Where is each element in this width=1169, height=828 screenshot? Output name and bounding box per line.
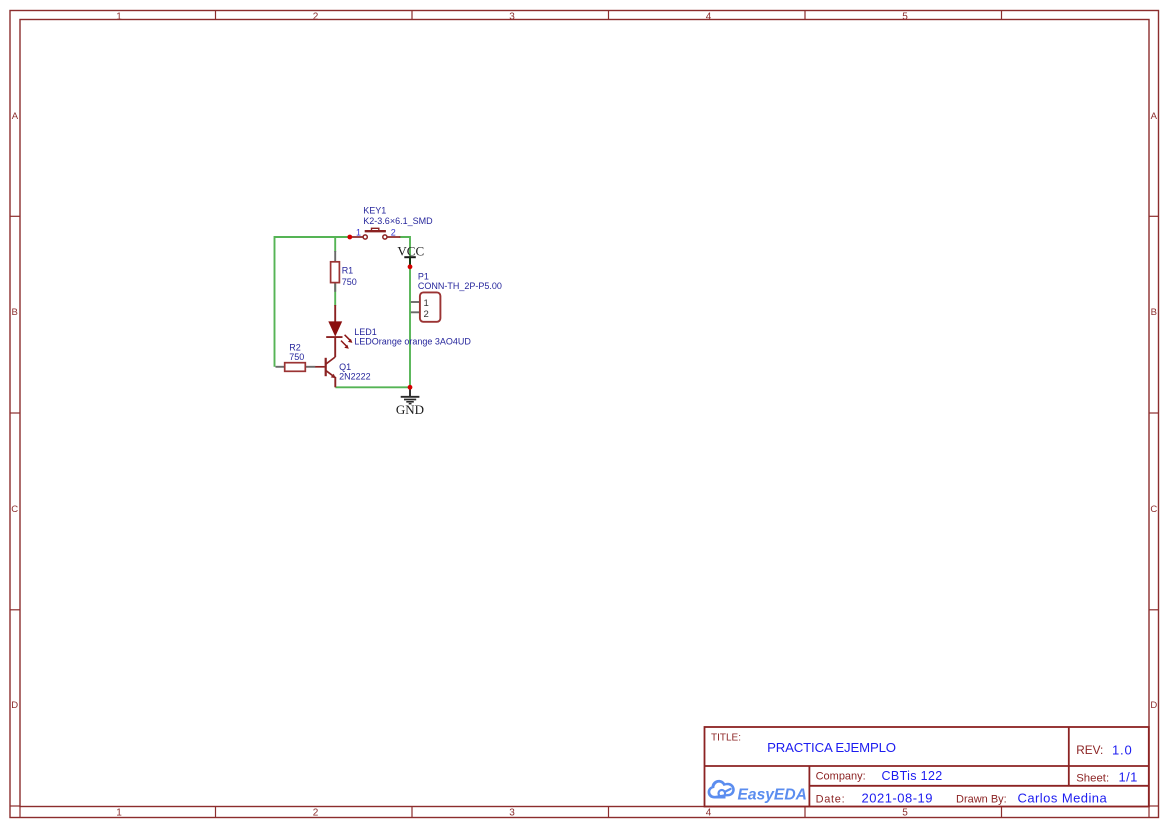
svg-text:Date:: Date: — [816, 794, 846, 806]
svg-text:PRACTICA EJEMPLO: PRACTICA EJEMPLO — [767, 740, 896, 755]
svg-text:750: 750 — [289, 352, 304, 362]
wire top-left loop (left vertical + top horizontal) — [275, 237, 350, 367]
svg-text:2: 2 — [424, 309, 429, 320]
svg-text:CBTis 122: CBTis 122 — [882, 769, 943, 783]
label R2 value — [289, 343, 304, 363]
row tick marks left margin — [10, 216, 20, 806]
svg-text:1: 1 — [424, 298, 429, 309]
column tick marks top margin — [216, 11, 1002, 20]
svg-text:2021-08-19: 2021-08-19 — [862, 791, 934, 806]
svg-text:TITLE:: TITLE: — [711, 733, 741, 744]
wire R1 branch vertical — [334, 237, 336, 252]
svg-text:5: 5 — [902, 11, 908, 22]
svg-text:K2-3.6×6.1_SMD: K2-3.6×6.1_SMD — [363, 216, 433, 226]
svg-text:Carlos Medina: Carlos Medina — [1018, 791, 1108, 806]
svg-text:B: B — [12, 307, 18, 318]
svg-text:2N2222: 2N2222 — [339, 372, 371, 382]
junction dot at VCC — [408, 264, 413, 269]
svg-text:KEY1: KEY1 — [363, 206, 386, 216]
svg-text:1.0: 1.0 — [1112, 743, 1132, 758]
svg-text:1: 1 — [116, 808, 122, 819]
label P1 — [418, 271, 502, 291]
svg-text:5: 5 — [902, 808, 908, 819]
svg-text:D: D — [1150, 700, 1157, 711]
svg-text:R1: R1 — [342, 266, 354, 276]
title block row divider 1 — [705, 765, 1149, 767]
svg-text:1: 1 — [116, 11, 122, 22]
transistor Q1 — [315, 357, 336, 387]
row letters right — [1150, 111, 1157, 711]
svg-text:LEDOrange orange 3AO4UD: LEDOrange orange 3AO4UD — [354, 337, 471, 347]
resistor R1 — [331, 251, 340, 292]
title block row divider 2 — [809, 785, 1148, 787]
svg-text:C: C — [11, 504, 18, 515]
svg-text:4: 4 — [706, 808, 712, 819]
label R1 value — [342, 266, 357, 287]
label LED1 — [354, 327, 471, 347]
column numbers bottom — [116, 808, 908, 819]
connector P1 — [411, 292, 441, 321]
row tick marks right margin — [1149, 216, 1159, 806]
svg-text:VCC: VCC — [397, 243, 424, 258]
column tick marks bottom margin — [20, 807, 1149, 818]
svg-text:A: A — [12, 111, 19, 122]
svg-text:2: 2 — [313, 808, 319, 819]
junction dot at KEY1 pin 1 — [347, 235, 352, 240]
svg-text:Sheet:: Sheet: — [1076, 773, 1109, 785]
resistor R2 — [276, 363, 316, 372]
svg-text:CONN-TH_2P-P5.00: CONN-TH_2P-P5.00 — [418, 281, 502, 291]
EasyEDA logo cloud — [708, 780, 735, 799]
row letters left — [11, 111, 18, 711]
svg-text:2: 2 — [391, 228, 396, 238]
svg-text:Q1: Q1 — [339, 362, 351, 372]
svg-text:B: B — [1151, 307, 1157, 318]
wire between R1 and LED — [334, 283, 336, 306]
svg-text:3: 3 — [509, 808, 515, 819]
pushbutton KEY1 — [350, 228, 401, 239]
svg-text:A: A — [1151, 111, 1158, 122]
svg-text:LED1: LED1 — [354, 327, 377, 337]
svg-text:Drawn By:: Drawn By: — [956, 794, 1007, 806]
title block outline — [705, 727, 1149, 807]
svg-text:1/1: 1/1 — [1119, 770, 1138, 785]
svg-text:C: C — [1150, 504, 1157, 515]
label Q1 — [339, 362, 371, 382]
ground symbol — [401, 388, 420, 404]
svg-text:D: D — [11, 700, 18, 711]
svg-text:GND: GND — [396, 402, 424, 417]
LED LED1 — [326, 305, 352, 357]
svg-text:REV:: REV: — [1076, 743, 1103, 757]
title block rev column divider — [1068, 727, 1070, 786]
svg-text:2: 2 — [313, 11, 319, 22]
wire switch to corner, right vertical — [400, 237, 411, 387]
junction dot at GND node — [408, 385, 413, 390]
title block logo cell divider — [808, 766, 810, 807]
wire bottom horizontal — [335, 386, 410, 388]
column numbers top — [116, 11, 908, 22]
svg-text:R2: R2 — [289, 343, 301, 353]
svg-text:Company:: Company: — [816, 771, 866, 783]
svg-text:3: 3 — [509, 11, 515, 22]
svg-text:P1: P1 — [418, 271, 429, 281]
svg-text:EasyEDA: EasyEDA — [738, 786, 807, 803]
svg-text:1: 1 — [356, 228, 361, 238]
svg-text:750: 750 — [342, 277, 357, 287]
label KEY1 — [363, 206, 433, 227]
svg-text:4: 4 — [706, 11, 712, 22]
VCC power symbol — [404, 257, 416, 267]
